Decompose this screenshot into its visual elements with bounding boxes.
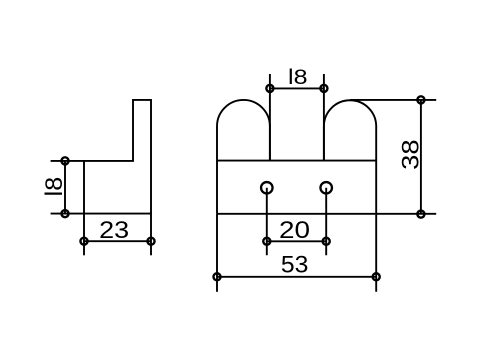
hole left center extension line bbox=[266, 188, 268, 256]
svg-text:53: 53 bbox=[281, 252, 309, 279]
right view left tab outline bbox=[217, 100, 270, 214]
left view part outline bbox=[84, 100, 151, 214]
extension line 23 left bbox=[83, 214, 85, 256]
dim terminator circle bbox=[213, 273, 220, 280]
dimension line 23 bbox=[84, 240, 151, 242]
dim terminator circle bbox=[266, 85, 273, 92]
extension line 53 right bbox=[375, 214, 377, 292]
dim terminator circle bbox=[147, 238, 154, 245]
dimension line 18 top bbox=[270, 87, 324, 89]
dim terminator circle bbox=[373, 273, 380, 280]
dim terminator circle bbox=[323, 238, 330, 245]
left view bottom extension line bbox=[51, 213, 84, 215]
dim terminator circle bbox=[80, 238, 87, 245]
right view plate top line bbox=[217, 160, 376, 162]
extension line 38 top bbox=[350, 99, 436, 101]
dim terminator circle bbox=[263, 238, 270, 245]
svg-text:l8: l8 bbox=[288, 66, 308, 89]
dim terminator circle bbox=[61, 157, 68, 164]
svg-text:23: 23 bbox=[99, 217, 129, 244]
extension line 18 top left bbox=[269, 74, 271, 161]
left view top extension line bbox=[51, 160, 84, 162]
hole right center extension line bbox=[325, 188, 327, 256]
right view right tab outline bbox=[324, 100, 376, 214]
svg-text:20: 20 bbox=[279, 217, 310, 244]
dim terminator circle bbox=[417, 211, 424, 218]
svg-text:l8: l8 bbox=[41, 177, 68, 197]
dimension line 53 bbox=[217, 276, 376, 278]
dimension line 38 bbox=[420, 100, 422, 214]
dim terminator circle bbox=[320, 85, 327, 92]
dimension line 20 bbox=[267, 240, 326, 242]
extension line 53 left bbox=[216, 214, 218, 292]
hole left bbox=[261, 182, 273, 194]
svg-text:38: 38 bbox=[397, 139, 424, 170]
extension line 23 right bbox=[150, 214, 152, 256]
right view plate bottom line with 38 extension bbox=[217, 213, 436, 215]
dim terminator circle bbox=[61, 210, 68, 217]
hole right bbox=[320, 182, 332, 194]
dim terminator circle bbox=[417, 96, 424, 103]
dimension line 18 (left view) bbox=[64, 161, 66, 214]
extension line 18 top right bbox=[323, 74, 325, 161]
